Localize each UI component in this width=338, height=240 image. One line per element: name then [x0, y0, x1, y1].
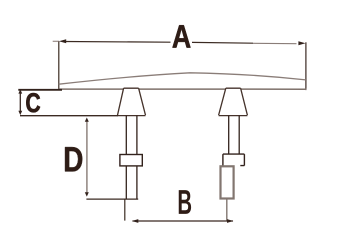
dimension B right arrowhead: [227, 219, 233, 223]
dimension D line: [86, 121, 88, 193]
label C: [26, 93, 40, 112]
right stud collar: [223, 154, 245, 166]
dimension A right arrowhead: [298, 41, 305, 45]
right stud: [229, 116, 240, 155]
dimension B line: [133, 220, 234, 222]
label D: [65, 147, 82, 171]
extension line right (bar right edge): [305, 42, 307, 90]
left leg trapezoid: [118, 88, 146, 115]
dimension C bottom arrowhead: [18, 111, 22, 115]
left stud nut: [120, 155, 142, 166]
base line (C bottom / D top extension): [20, 115, 118, 117]
left stud: [126, 116, 137, 199]
right stud gray sleeve: [221, 166, 234, 198]
right stud extension down (gray): [226, 199, 228, 221]
extension line left (bar left edge): [58, 42, 60, 90]
dimension C line: [19, 93, 21, 113]
label B: [179, 190, 191, 214]
dimension A left overshoot: [53, 40, 60, 42]
label A: [172, 25, 190, 47]
connector line D to left stud bottom: [86, 198, 138, 200]
dimension A left arrowhead: [59, 39, 66, 43]
cleat bar bottom line: [59, 88, 307, 90]
dimension A line: [65, 42, 254, 44]
dimension D top arrowhead: [85, 118, 89, 122]
left stud extension down: [124, 199, 126, 221]
dimension C top arrowhead: [18, 89, 22, 93]
right leg trapezoid: [219, 88, 248, 115]
cleat bar top curve: [59, 73, 306, 84]
dimension D bottom arrowhead: [85, 192, 89, 196]
dimension B left arrowhead: [132, 219, 138, 223]
C top extension line (thick): [18, 89, 62, 91]
dimension A line right light segment: [253, 42, 297, 44]
